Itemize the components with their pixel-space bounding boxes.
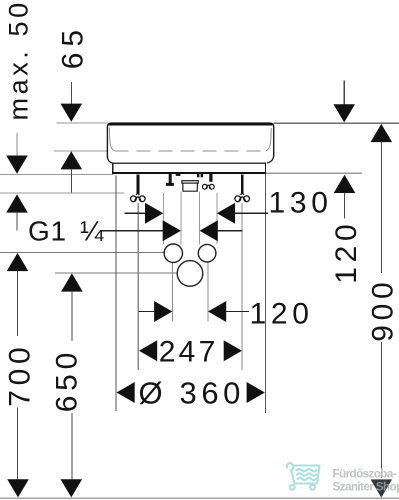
vertical dim 120 top line bbox=[343, 81, 345, 105]
svg-text:Ø: Ø bbox=[139, 375, 168, 410]
dimension 650 upper tail bbox=[71, 291, 73, 341]
dimension 360 arrow right bbox=[247, 382, 265, 403]
extension line left hanger bolt bbox=[137, 203, 139, 370]
label 650 (rotated) bbox=[51, 348, 84, 412]
vertical dim arrow up at mounting line bbox=[334, 175, 356, 193]
left hanger bolt bbox=[136, 174, 139, 194]
extension line supply circle right center bbox=[207, 263, 209, 322]
tailpiece wing nut bbox=[202, 184, 214, 189]
dimension 360 arrow left bbox=[117, 382, 135, 403]
G-dim arrow right bbox=[163, 220, 181, 241]
dimension 65 arrow up bbox=[61, 151, 83, 169]
svg-text:G: G bbox=[28, 216, 50, 247]
G-dim right tail bbox=[217, 230, 242, 232]
extension line supply circle left center bbox=[172, 263, 174, 322]
dimension 120h left tail bbox=[138, 311, 155, 313]
watermark cart icon bbox=[287, 463, 320, 490]
right wing nut bbox=[235, 193, 250, 202]
svg-text:360: 360 bbox=[180, 375, 246, 410]
basin top bold line bbox=[109, 123, 273, 126]
dimension max50 arrow down bbox=[6, 156, 28, 174]
reference line basin top to right edge bbox=[274, 122, 399, 124]
dimension 650 arrow up bbox=[61, 273, 83, 291]
svg-text:120: 120 bbox=[250, 298, 314, 331]
dimension 700 upper tail bbox=[17, 271, 19, 336]
dimension 700 arrow up bbox=[7, 253, 29, 271]
extension line drain pipe left bbox=[180, 192, 182, 245]
dimension max50 line top bbox=[16, 133, 18, 157]
basin pedestal right edge bbox=[265, 163, 267, 172]
svg-text:130: 130 bbox=[269, 187, 333, 220]
basin pedestal left edge bbox=[112, 163, 114, 172]
supply circle right bbox=[198, 244, 216, 262]
dimension 900 lower tail bbox=[380, 342, 382, 478]
dimension 900 arrow up bbox=[371, 124, 393, 142]
label 65 (rotated) bbox=[57, 24, 90, 69]
basin inner rim right hook bbox=[266, 128, 271, 151]
extension line 130 right bbox=[216, 193, 218, 244]
label 900 (rotated) bbox=[367, 278, 399, 342]
extension line pedestal right bbox=[265, 174, 267, 413]
label 120 vertical (rotated) bbox=[330, 220, 363, 284]
svg-text:247: 247 bbox=[159, 336, 219, 369]
basin inner rim left hook bbox=[109, 128, 114, 151]
label 700 (rotated) bbox=[3, 343, 36, 407]
svg-text:900: 900 bbox=[367, 278, 399, 342]
dimension 130 arrow left bbox=[217, 203, 235, 224]
dimension max50 arrow up bbox=[6, 194, 28, 212]
extension line pedestal left bbox=[115, 176, 117, 412]
G-dim arrow left bbox=[200, 220, 218, 241]
drain bracket right angle bbox=[209, 173, 212, 182]
reference line countertop left bbox=[0, 174, 113, 176]
basin bowl bottom left curve bbox=[107, 157, 112, 164]
reference line mounting right bbox=[266, 172, 362, 174]
basin inner rim dashed line bbox=[115, 150, 266, 152]
dimension 650 lower tail bbox=[71, 413, 73, 480]
dimension 120h right tail bbox=[226, 311, 249, 313]
svg-text:650: 650 bbox=[51, 348, 84, 412]
dimension 247 arrow right bbox=[224, 340, 242, 361]
basin outer profile bbox=[107, 123, 273, 158]
leader G 1 1/4 bbox=[101, 230, 164, 232]
dimension 130 left tail bbox=[124, 212, 146, 214]
reference line wall-left of basin top bbox=[56, 122, 107, 124]
dimension 900 upper tail bbox=[380, 142, 382, 273]
drain circle bbox=[177, 261, 203, 287]
reference line supply level bbox=[0, 252, 164, 254]
extension line right hanger bolt bbox=[241, 203, 243, 370]
drain bracket clamp mark bbox=[176, 173, 181, 176]
right hanger bolt bbox=[241, 174, 244, 194]
reference line rim level left bbox=[54, 150, 107, 152]
label max. 50 (rotated) bbox=[3, 0, 33, 121]
basin pedestal bottom bold line bbox=[112, 172, 266, 174]
dimension 130 arrow right bbox=[145, 203, 163, 224]
dimension 247 arrow left bbox=[139, 340, 157, 361]
reference line drain level bbox=[55, 272, 177, 274]
dimension 700 arrow down bbox=[7, 479, 29, 497]
dimension 65 line bottom bbox=[70, 169, 72, 193]
drain bracket studs bbox=[197, 173, 200, 178]
basin bowl bottom right curve bbox=[267, 155, 274, 163]
dimension 130 right tail bbox=[235, 212, 268, 214]
drain bracket left angle bbox=[166, 173, 174, 185]
dimension max50 line bottom bbox=[16, 212, 18, 230]
drain tailpiece bbox=[182, 181, 198, 192]
dimension 900 arrow down (over watermark) bbox=[371, 479, 393, 497]
svg-text:1: 1 bbox=[51, 216, 67, 247]
dimension 65 line top bbox=[70, 82, 72, 105]
svg-text:max. 50: max. 50 bbox=[3, 0, 33, 121]
svg-text:700: 700 bbox=[3, 343, 36, 407]
extension line 130 left bbox=[162, 193, 164, 244]
reference line lower left bbox=[0, 192, 124, 194]
left wing nut bbox=[131, 193, 146, 202]
extension line drain pipe right bbox=[199, 192, 201, 245]
floor line bbox=[0, 497, 399, 499]
dimension 120h arrow right bbox=[154, 301, 172, 322]
dimension 650 arrow down bbox=[61, 479, 83, 497]
svg-text:65: 65 bbox=[57, 24, 90, 69]
svg-text:120: 120 bbox=[330, 220, 363, 284]
svg-text:¼: ¼ bbox=[80, 216, 104, 247]
vertical dim tail bbox=[344, 193, 346, 219]
dimension 65 arrow down bbox=[61, 104, 83, 122]
svg-text:Fürdőszoba-: Fürdőszoba- bbox=[333, 468, 397, 481]
dimension 700 lower tail bbox=[17, 408, 19, 480]
supply circle left bbox=[164, 244, 182, 262]
dimension 120h arrow left bbox=[208, 301, 226, 322]
vertical dim arrow down at basin top bbox=[333, 104, 355, 122]
basin bowl bottom line bbox=[113, 162, 266, 164]
